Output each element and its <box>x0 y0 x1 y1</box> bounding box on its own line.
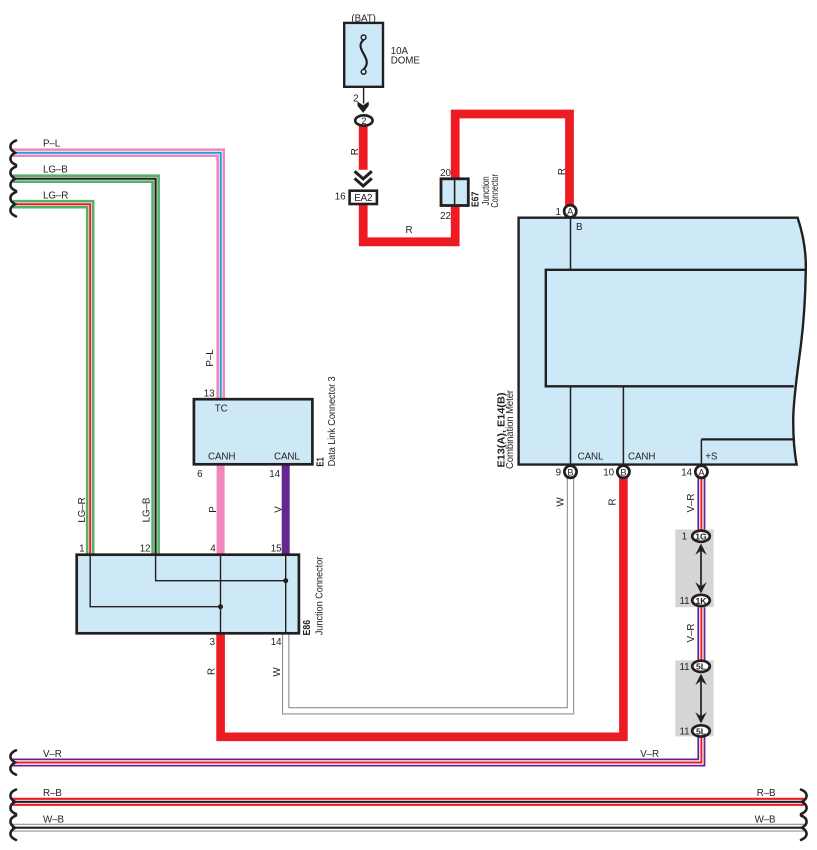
continuation squiggle LG-B <box>10 167 16 191</box>
svg-text:V–R: V–R <box>686 494 697 513</box>
svg-text:1: 1 <box>555 207 560 218</box>
svg-text:LG–B: LG–B <box>142 497 153 522</box>
svg-text:3: 3 <box>210 637 216 648</box>
junction connector E86 box <box>77 555 299 634</box>
svg-text:Combination Meter: Combination Meter <box>505 389 516 469</box>
connector A circle (meter pin 14) <box>695 466 707 478</box>
svg-text:R: R <box>557 168 568 175</box>
svg-text:W: W <box>272 667 283 677</box>
connector EA2 <box>350 191 377 204</box>
wire V (violet) E1 pin 14 to E86 pin 15 <box>282 463 290 556</box>
svg-text:9: 9 <box>556 468 561 479</box>
svg-text:W–B: W–B <box>755 814 776 825</box>
svg-text:A: A <box>698 467 705 477</box>
junction connector E67 <box>441 179 468 206</box>
data link connector 3 E1 box <box>194 399 313 464</box>
svg-text:14: 14 <box>269 469 280 480</box>
connector B circle (meter pin 9) <box>564 466 576 478</box>
svg-text:14: 14 <box>681 468 692 479</box>
meter inner box <box>546 270 806 387</box>
svg-text:E1: E1 <box>315 457 326 467</box>
svg-text:6: 6 <box>197 469 203 480</box>
svg-text:CANL: CANL <box>578 452 604 463</box>
svg-text:1G: 1G <box>695 532 707 542</box>
svg-text:Connector: Connector <box>490 174 501 208</box>
svg-text:LG–R: LG–R <box>77 497 88 522</box>
svg-text:B: B <box>567 467 573 477</box>
svg-text:11: 11 <box>680 726 690 737</box>
svg-text:B: B <box>620 467 626 477</box>
svg-text:11: 11 <box>680 662 690 673</box>
svg-text:A: A <box>567 207 574 217</box>
svg-text:22: 22 <box>440 211 451 222</box>
wire P (pink) E1 pin 6 to E86 pin 4 <box>217 463 225 556</box>
svg-text:10: 10 <box>603 468 614 479</box>
wire R (red) EA2 through E67 to meter pin A <box>363 114 569 242</box>
svg-text:W: W <box>555 497 566 507</box>
svg-text:20: 20 <box>440 168 451 179</box>
svg-text:V–R: V–R <box>686 624 697 643</box>
svg-text:V–R: V–R <box>640 749 659 760</box>
continuation squiggle R-B right <box>801 790 807 814</box>
wire LG-B (green/black) from left edge to E86 pin 12 <box>13 179 156 556</box>
svg-text:5L: 5L <box>696 662 706 672</box>
svg-text:TC: TC <box>215 404 228 415</box>
svg-text:4: 4 <box>210 544 216 555</box>
fuse 10A DOME <box>344 23 383 87</box>
svg-text:CANH: CANH <box>628 452 655 463</box>
E86 internal wire pin4 to pin3 <box>220 556 222 632</box>
svg-text:R–B: R–B <box>43 788 62 799</box>
E86 internal wire pin15 to pin14 <box>285 556 287 632</box>
svg-text:R: R <box>607 498 618 505</box>
arrow down (above 5L bottom) <box>695 712 706 723</box>
wire P-L (pink/blue) from left edge to E1 pin 13 <box>13 153 221 400</box>
svg-text:CANL: CANL <box>274 452 300 463</box>
E86 internal wire pin1 to pin3 node <box>90 556 220 607</box>
pin line CANL (meter) <box>570 386 572 464</box>
svg-text:Data Link Connector 3: Data Link Connector 3 <box>327 376 338 467</box>
svg-text:16: 16 <box>335 192 346 203</box>
connector 5L (top) <box>692 661 710 672</box>
svg-text:V: V <box>273 506 284 513</box>
svg-text:R–B: R–B <box>757 788 776 799</box>
continuation squiggle V-R <box>10 750 16 774</box>
continuation squiggle LG-R <box>10 192 16 216</box>
E86 internal wire pin12 to pin14 node <box>156 556 286 581</box>
arrow line 1G-1K <box>700 548 702 589</box>
svg-text:R: R <box>406 225 413 236</box>
connector B circle (meter pin 10) <box>617 466 629 478</box>
svg-text:CANH: CANH <box>208 452 235 463</box>
svg-text:Junction Connector: Junction Connector <box>315 556 326 635</box>
svg-text:E86: E86 <box>302 619 313 635</box>
combination meter E13(A), E14(B) box <box>519 218 806 465</box>
svg-text:P: P <box>208 506 219 513</box>
svg-text:R: R <box>207 668 218 675</box>
svg-text:13: 13 <box>204 389 215 400</box>
arrow line 5L-5L <box>700 678 702 719</box>
continuation squiggle W-B left <box>10 816 16 840</box>
svg-text:DOME: DOME <box>391 55 421 66</box>
svg-text:LG–B: LG–B <box>43 165 68 176</box>
wire fuse pin 2 lead <box>363 87 365 104</box>
wire R-B (red/black) bottom bus <box>12 798 804 806</box>
pin line +S <box>700 439 702 464</box>
arrow down (above 1K) <box>695 582 706 593</box>
meter bottom-right step <box>701 438 794 440</box>
svg-text:(BAT): (BAT) <box>351 14 375 25</box>
svg-text:EA2: EA2 <box>354 193 372 204</box>
shield block 1G-1K <box>675 530 713 608</box>
pin line B to inner box <box>570 218 572 269</box>
wire R (red) E86 pin 3 to meter pin 10 <box>221 478 624 737</box>
pin line CANH (meter) <box>622 386 624 464</box>
wire W-B (white/black) bottom bus <box>12 824 804 832</box>
svg-text:P–L: P–L <box>205 349 216 367</box>
splice arrows into EA2 <box>352 170 375 191</box>
svg-text:1: 1 <box>79 544 84 555</box>
svg-text:1K: 1K <box>696 596 708 606</box>
continuation squiggle P-L <box>10 141 16 165</box>
connector 5L (bottom) <box>692 725 710 736</box>
svg-text:B: B <box>576 222 583 233</box>
svg-text:14: 14 <box>271 637 282 648</box>
svg-text:12: 12 <box>140 544 151 555</box>
svg-text:P–L: P–L <box>43 139 61 150</box>
connector 1K <box>692 595 710 606</box>
wire V-R (violet/red) meter pin 14 through 1G/1K/5L/5L to left edge <box>13 478 701 763</box>
connector 2 (ellipse) <box>355 115 372 125</box>
svg-text:2: 2 <box>361 116 366 126</box>
arrow into connector 2 <box>358 102 369 113</box>
junction node (pin3 line) <box>218 604 223 609</box>
wire LG-R (green/red) from left edge to E86 pin 1 <box>13 204 90 556</box>
svg-text:5L: 5L <box>696 726 706 736</box>
junction node (pin14 line) <box>283 578 288 583</box>
arrow up (below 1G) <box>695 544 706 555</box>
wire R (red) fuse to EA2 <box>359 125 368 176</box>
svg-text:W–B: W–B <box>43 814 64 825</box>
shield block 5L-5L <box>675 660 713 736</box>
connector 1G <box>692 531 710 542</box>
continuation squiggle R-B left <box>10 790 16 814</box>
svg-text:R: R <box>350 148 361 155</box>
svg-text:+S: +S <box>705 452 718 463</box>
svg-text:11: 11 <box>680 596 690 607</box>
svg-text:1: 1 <box>682 532 687 543</box>
svg-text:15: 15 <box>271 544 282 555</box>
continuation squiggle W-B right <box>801 816 807 840</box>
connector A circle (meter top, pin 1) <box>564 205 576 217</box>
svg-text:LG–R: LG–R <box>43 191 68 202</box>
arrow up (below 5L top) <box>695 674 706 685</box>
svg-text:V–R: V–R <box>43 749 62 760</box>
wire W (white) E86 pin 14 to meter pin 9 <box>286 478 571 711</box>
